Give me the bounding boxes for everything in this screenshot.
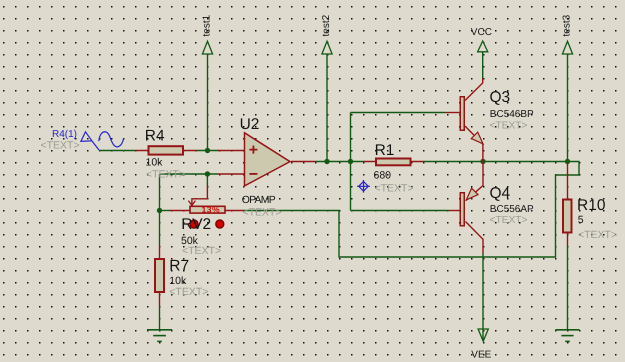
- label: R1 property text: [375, 183, 414, 195]
- svg-text:Q4: Q4: [490, 185, 511, 202]
- svg-text:<TEXT>: <TEXT>: [375, 183, 414, 195]
- wire: - input down to RV2/R7 node: [159, 174, 161, 211]
- label: R10 value 5: [578, 214, 584, 226]
- label: U2 value OPAMP: [242, 195, 276, 206]
- svg-text:13%: 13%: [201, 204, 220, 214]
- node: junction dot -input/wiper: [205, 171, 210, 176]
- node: junction dot emitters/output: [480, 159, 485, 164]
- wire: Q4 base horizontal: [351, 210, 449, 212]
- label: R7 property text: [169, 286, 208, 298]
- label: R10 property text: [578, 229, 617, 241]
- svg-text:<TEXT>: <TEXT>: [41, 139, 80, 151]
- op-amp U2 output pin: [291, 161, 316, 163]
- label: VEE: [471, 350, 491, 361]
- wire: Q4 collector to VEE: [482, 254, 484, 341]
- svg-text:BC556AP: BC556AP: [490, 204, 534, 215]
- potentiometer RV2: [169, 206, 243, 213]
- svg-text:U2: U2: [240, 116, 260, 133]
- label: R4 property text: [146, 168, 185, 180]
- wire: R1 right to output node: [424, 161, 568, 163]
- label: R4 value 10k: [146, 156, 164, 168]
- label: Q3 value BC546BP: [490, 109, 534, 120]
- label: R1 reference: [375, 142, 395, 159]
- wire: test1 vertical: [207, 54, 209, 151]
- wire: RV2 right pin feedback route to output node: [243, 162, 579, 258]
- wire: R4 right pin to opamp + input: [197, 150, 220, 152]
- wire: test2 vertical: [326, 54, 328, 162]
- label: R1 value 680: [374, 170, 392, 182]
- svg-text:<TEXT>: <TEXT>: [243, 206, 282, 218]
- label: Q3 reference: [490, 89, 511, 106]
- label: test3: [562, 14, 573, 36]
- resistor R1: [363, 159, 424, 166]
- svg-text:<TEXT>: <TEXT>: [490, 120, 528, 131]
- resistor R7: [155, 246, 164, 306]
- power VEE arrow: [478, 329, 488, 341]
- generator marker R4(1): [81, 132, 124, 150]
- node: junction dot R4/+input/test1: [205, 148, 210, 153]
- svg-text:BC546BP: BC546BP: [490, 109, 534, 120]
- label: R10 reference: [577, 197, 606, 214]
- resistor R10: [563, 162, 572, 246]
- wire: base bus vertical (Q3/Q4 bases): [350, 113, 352, 211]
- wire: node to RV2 left pin: [160, 210, 170, 212]
- svg-text:<TEXT>: <TEXT>: [146, 168, 185, 180]
- label: U2 property text: [243, 206, 282, 218]
- label: RV2 reference: [181, 216, 211, 233]
- svg-text:Q3: Q3: [490, 89, 511, 106]
- RV2 red adjust dot left: [190, 220, 198, 228]
- power VCC arrow: [478, 41, 488, 52]
- wire: R7 bottom to ground: [159, 306, 161, 330]
- svg-text:<TEXT>: <TEXT>: [490, 215, 528, 226]
- node: junction dot test3/R10: [565, 159, 570, 164]
- potentiometer RV2 wiper arrow: [188, 174, 207, 205]
- svg-text:10k: 10k: [169, 275, 187, 287]
- label: RV2 13% value: [201, 204, 220, 214]
- transistor Q4 (PNP BC556AP): [449, 162, 484, 254]
- wire: generator to R4 left pin: [99, 150, 136, 152]
- svg-text:test3: test3: [562, 14, 573, 36]
- svg-text:VEE: VEE: [471, 350, 491, 361]
- node: junction dot base bus/output: [348, 159, 353, 164]
- label: R4 reference: [145, 127, 165, 144]
- label: U2 reference: [240, 116, 260, 133]
- wire: node down to R7 top: [159, 211, 161, 247]
- svg-text:R10: R10: [577, 197, 606, 214]
- label: VCC: [471, 27, 492, 38]
- test point test1 arrow: [202, 41, 212, 54]
- svg-text:R4: R4: [145, 127, 165, 144]
- svg-text:680: 680: [374, 170, 392, 182]
- wire: test3 vertical: [567, 54, 569, 162]
- resistor R4: [136, 146, 197, 154]
- svg-text:<TEXT>: <TEXT>: [169, 286, 208, 298]
- label: test1: [202, 14, 213, 36]
- svg-text:5: 5: [578, 214, 584, 226]
- label: R7 value 10k: [169, 275, 187, 287]
- test point test3 arrow: [562, 41, 572, 54]
- wire: opamp output to R1: [316, 161, 363, 163]
- svg-text:OPAMP: OPAMP: [242, 195, 276, 206]
- label: Q4 value BC556AP: [490, 204, 534, 215]
- wire: R10 bottom to ground: [567, 246, 569, 330]
- ground (under R7): [147, 330, 172, 342]
- svg-text:<TEXT>: <TEXT>: [578, 229, 617, 241]
- origin marker (blue crosshair): [357, 180, 370, 193]
- svg-text:10k: 10k: [146, 156, 164, 168]
- node: junction dot test2/output: [324, 159, 329, 164]
- test point test2 arrow: [322, 41, 332, 54]
- label: R7 reference: [169, 257, 189, 274]
- RV2 red adjust dot right: [216, 220, 224, 228]
- node: junction dot RV2/R7: [157, 208, 162, 213]
- svg-text:VCC: VCC: [471, 27, 492, 38]
- svg-text:R1: R1: [375, 142, 395, 159]
- label: test2: [321, 14, 332, 36]
- op-amp U1 input pins: [218, 151, 245, 175]
- label: RV2 property text: [182, 245, 221, 257]
- svg-text:test1: test1: [202, 14, 213, 36]
- transistor Q3 (NPN BC546BP): [445, 79, 483, 162]
- svg-text:test2: test2: [321, 14, 332, 36]
- op-amp U2: [245, 133, 291, 186]
- label: RV2 value 50k: [181, 235, 199, 247]
- svg-text:R7: R7: [169, 257, 189, 274]
- label: Q3 property text: [490, 120, 528, 131]
- svg-text:<TEXT>: <TEXT>: [182, 245, 221, 257]
- ground (under R10): [555, 330, 579, 342]
- wire: Q3 base horizontal: [351, 112, 446, 114]
- wire: opamp - input line: [160, 173, 219, 175]
- svg-text:RV2: RV2: [181, 216, 211, 233]
- label: Q4 property text: [490, 215, 528, 226]
- wire: Q3 collector to VCC: [482, 53, 484, 79]
- label: generator net R4(1): [52, 129, 77, 140]
- label: generator property text: [41, 139, 80, 151]
- label: Q4 reference: [490, 185, 511, 202]
